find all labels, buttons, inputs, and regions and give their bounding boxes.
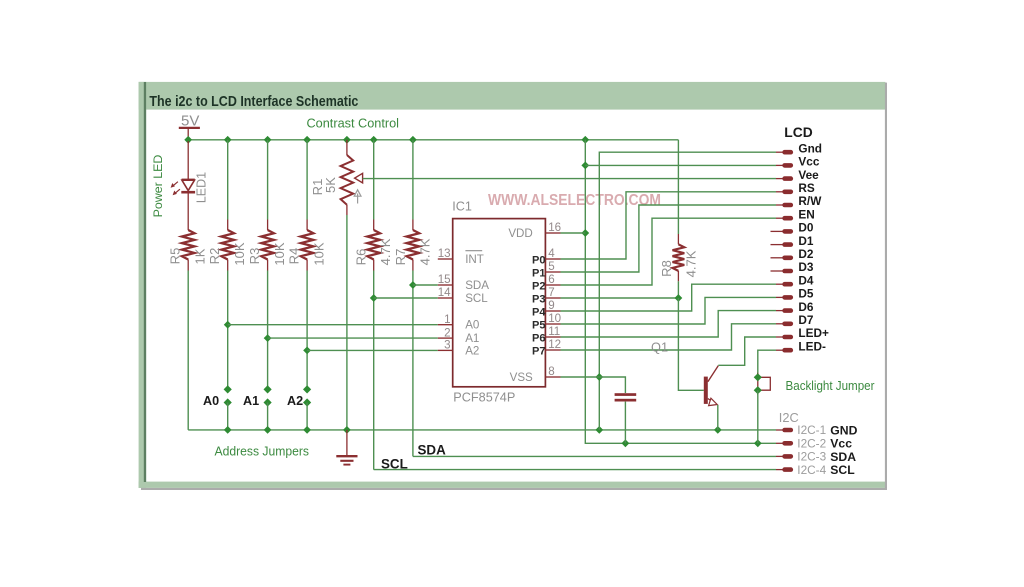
junction on 5V rail x=188.2 — [184, 136, 192, 144]
svg-text:4.7K: 4.7K — [378, 238, 393, 265]
pin 7 stub — [545, 297, 560, 299]
backlight jumper link — [761, 377, 770, 390]
svg-text:9: 9 — [548, 299, 554, 312]
wire: ground rail — [188, 429, 776, 431]
svg-text:10: 10 — [548, 312, 561, 325]
wire: A2 to IC pin 3 — [307, 349, 438, 351]
junction SCL at R6 — [370, 294, 378, 302]
svg-text:PCF8574P: PCF8574P — [453, 390, 515, 405]
junction SDA at R7 — [409, 281, 417, 289]
svg-text:GND: GND — [830, 423, 857, 437]
wire: R3 to jumper — [267, 260, 269, 271]
wire: jumper A2 to ground rail — [306, 403, 308, 430]
jumper pad pair backlight — [754, 373, 762, 381]
wire: D7 net — [561, 324, 777, 350]
svg-text:P6: P6 — [532, 333, 545, 345]
connector pin I2C-3 SDA — [776, 455, 783, 457]
wire: R1 bottom to ground rail — [346, 205, 348, 215]
svg-text:VSS: VSS — [510, 371, 533, 384]
svg-text:A0: A0 — [465, 319, 479, 332]
junction A1 net — [264, 334, 272, 342]
wire: Vcc net vertical and run to I2C-2 — [585, 140, 776, 444]
schematic panel frame — [139, 82, 887, 490]
wire: SCL bottom run to I2C-4 — [374, 469, 776, 471]
svg-text:1: 1 — [444, 313, 450, 326]
connector pin LCD D7 — [776, 323, 783, 325]
junction on 5V rail x=227.7 — [224, 136, 232, 144]
wire: A1 to IC pin 2 — [268, 337, 438, 339]
svg-text:5K: 5K — [323, 177, 338, 193]
jumper pad pair A0 — [224, 385, 232, 393]
svg-text:Q1: Q1 — [651, 340, 668, 355]
pin 11 stub — [545, 336, 560, 338]
wire: RS net — [561, 192, 777, 259]
wire: LCD Vcc line — [585, 164, 776, 166]
junction on ground rail x=267.6 — [264, 426, 272, 434]
junction on 5V rail x=412.9 — [409, 136, 417, 144]
wire: R6 column to SCL corner — [373, 271, 375, 470]
connector pin I2C-4 SCL — [776, 469, 783, 471]
svg-text:RS: RS — [798, 181, 815, 195]
connector pin LCD Vee — [776, 178, 783, 180]
connector pin I2C-1 GND — [776, 429, 783, 431]
svg-text:P3: P3 — [532, 294, 545, 306]
svg-text:D2: D2 — [798, 247, 814, 261]
wire: R2 to jumper — [227, 260, 229, 271]
pin 16 stub — [545, 232, 560, 234]
svg-text:6: 6 — [548, 273, 554, 286]
svg-text:13: 13 — [438, 247, 451, 260]
svg-text:P1: P1 — [532, 268, 545, 280]
junction Vcc / LCD Vcc — [581, 162, 589, 170]
connector pin LCD Gnd — [776, 151, 783, 153]
wire: EN net — [561, 218, 777, 285]
pin 2 stub — [438, 337, 453, 339]
transistor Q1 — [704, 366, 719, 406]
junction on ground rail x=346.9 — [343, 426, 351, 434]
svg-text:D3: D3 — [798, 260, 814, 274]
svg-text:4.7K: 4.7K — [417, 238, 432, 265]
svg-text:A2: A2 — [287, 394, 303, 408]
svg-text:10K: 10K — [232, 242, 247, 265]
resistor R4 10K — [301, 230, 314, 260]
svg-text:WWW.ALSELECTRO.COM: WWW.ALSELECTRO.COM — [488, 192, 661, 209]
svg-text:D1: D1 — [798, 234, 814, 248]
svg-text:SCL: SCL — [830, 463, 855, 477]
connector pin LCD D6 — [776, 310, 783, 312]
pin 5 stub — [545, 271, 560, 273]
svg-text:P5: P5 — [532, 320, 545, 332]
pin 3 stub — [438, 349, 453, 351]
wire: D5 net — [561, 297, 777, 324]
pin 14 stub — [438, 297, 453, 299]
pin 8 stub — [545, 376, 560, 378]
svg-text:I2C-1: I2C-1 — [797, 423, 826, 437]
junction Vcc / backlight jumper — [754, 439, 762, 447]
wire: VDD pin16 to Vcc net — [561, 232, 586, 234]
svg-text:8: 8 — [548, 365, 554, 378]
svg-text:4.7K: 4.7K — [683, 250, 698, 277]
svg-text:D6: D6 — [798, 300, 814, 314]
resistor R6 4.7K — [367, 230, 380, 260]
svg-text:Vcc: Vcc — [830, 437, 852, 451]
junction on ground rail x=307.1 — [303, 426, 311, 434]
svg-text:R2: R2 — [207, 248, 222, 265]
capacitor C1 — [615, 393, 637, 396]
svg-text:R5: R5 — [167, 248, 182, 265]
wire: capacitor to Vcc line — [624, 402, 626, 444]
wire: R/W net — [561, 205, 777, 272]
svg-text:Gnd: Gnd — [798, 141, 822, 155]
wire: R7 column to SDA corner — [412, 271, 414, 457]
resistor R5 1K — [182, 230, 195, 260]
svg-text:4: 4 — [548, 247, 555, 260]
wire: rail to R7 — [412, 140, 414, 220]
wire: rail to R3 — [267, 140, 269, 220]
svg-text:R7: R7 — [393, 249, 408, 266]
wire: Q1 emitter to ground rail — [717, 405, 719, 430]
resistor R2 10K — [221, 230, 234, 260]
svg-text:SDA: SDA — [418, 443, 447, 458]
svg-text:LED-: LED- — [798, 339, 826, 353]
wire: Q1 collector to LED+ — [718, 337, 776, 365]
svg-text:SCL: SCL — [465, 292, 488, 305]
svg-text:10K: 10K — [311, 242, 326, 265]
junction A2 net — [303, 347, 311, 355]
jumper pad pair A1 — [264, 385, 272, 393]
wire: stub D0 — [771, 230, 784, 232]
connector pin LCD D5 — [776, 296, 783, 298]
svg-text:Power LED: Power LED — [151, 155, 165, 218]
connector pin LCD R/W — [776, 204, 783, 206]
pin 9 stub — [545, 310, 560, 312]
pin 6 stub — [545, 284, 560, 286]
wire: LCD LED- to jumper — [758, 350, 776, 375]
wire: rail to R1 — [346, 140, 348, 155]
pin 1 stub — [438, 324, 453, 326]
wire: R5 to ground rail — [187, 260, 189, 271]
wire: rail to R4 — [306, 140, 308, 220]
resistor R8 4.7K — [673, 244, 685, 271]
jumper pad pair A2 — [303, 385, 311, 393]
wire: jumper A1 to ground rail — [267, 403, 269, 430]
svg-text:Vcc: Vcc — [798, 155, 819, 169]
svg-text:11: 11 — [548, 325, 560, 338]
svg-text:12: 12 — [548, 338, 561, 351]
svg-text:EN: EN — [798, 207, 814, 221]
svg-text:SDA: SDA — [465, 279, 489, 292]
svg-text:7: 7 — [548, 286, 554, 299]
connector pin LCD LED- — [776, 349, 783, 351]
connector pin LCD Vcc — [776, 164, 783, 166]
pin 4 stub — [545, 258, 560, 260]
svg-text:A1: A1 — [465, 332, 479, 345]
wire: 5V rail — [188, 139, 678, 141]
svg-text:P4: P4 — [532, 307, 546, 319]
svg-text:5V: 5V — [181, 112, 199, 129]
wire: P3 pin7 to R8 — [561, 297, 679, 299]
wire: SDA to IC pin 15 — [413, 284, 438, 286]
svg-text:LED1: LED1 — [194, 172, 208, 203]
wire: rail to R6 — [373, 140, 375, 220]
svg-text:SDA: SDA — [830, 450, 856, 464]
svg-text:A1: A1 — [243, 394, 259, 408]
svg-text:I2C-2: I2C-2 — [797, 437, 826, 451]
wire: stub D1 — [771, 244, 784, 246]
svg-text:D7: D7 — [798, 313, 814, 327]
wire: LED1 to R5 — [187, 194, 189, 231]
wire: stub D3 — [771, 270, 784, 272]
junction on ground rail x=717.8 — [714, 426, 722, 434]
svg-text:R/W: R/W — [798, 194, 822, 208]
svg-text:P0: P0 — [532, 255, 545, 267]
svg-text:D0: D0 — [798, 221, 814, 235]
junction A0 net — [224, 321, 232, 329]
op IC1 PCF8574P box — [453, 219, 546, 387]
wire: rail to R2 — [227, 140, 229, 220]
wire: stub D2 — [771, 257, 784, 259]
svg-text:Vee: Vee — [798, 168, 819, 182]
svg-text:Address Jumpers: Address Jumpers — [215, 444, 310, 459]
svg-text:VDD: VDD — [508, 227, 532, 240]
wire: D6 net — [561, 311, 777, 337]
connector pin I2C-2 Vcc — [776, 442, 783, 444]
ground — [336, 430, 357, 465]
junction on 5V rail x=267.6 — [264, 136, 272, 144]
svg-text:A2: A2 — [465, 344, 479, 357]
LED LED1 — [171, 179, 196, 195]
connector pin LCD D1 — [785, 242, 791, 247]
svg-text:3: 3 — [444, 339, 450, 352]
svg-text:The i2c to LCD Interface Schem: The i2c to LCD Interface Schematic — [149, 94, 358, 110]
svg-text:Contrast Control: Contrast Control — [307, 116, 400, 131]
svg-text:R4: R4 — [287, 248, 302, 265]
svg-text:16: 16 — [548, 221, 561, 234]
junction on 5V rail x=307.1 — [303, 136, 311, 144]
svg-text:R3: R3 — [247, 248, 262, 265]
wire: R4 to jumper — [306, 260, 308, 271]
svg-text:1K: 1K — [192, 248, 207, 264]
svg-text:I2C: I2C — [779, 410, 799, 425]
junction on ground rail x=599.3 — [595, 426, 603, 434]
svg-text:D4: D4 — [798, 273, 814, 287]
connector pin LCD D4 — [776, 283, 783, 285]
junction Vcc / VDD — [581, 229, 589, 237]
svg-text:P7: P7 — [532, 346, 545, 358]
wire: SDA bottom run to I2C-3 — [413, 455, 776, 457]
pin 12 stub — [545, 349, 560, 351]
wire: R1 wiper to LCD Vee — [363, 178, 776, 180]
wire: LED/R5 column — [187, 141, 189, 180]
wire: jumper to Vcc line — [757, 390, 759, 443]
junction on 5V rail x=373.7 — [370, 136, 378, 144]
wire: VSS pin8 to capacitor — [561, 377, 626, 393]
svg-text:Backlight Jumper: Backlight Jumper — [786, 378, 876, 393]
junction Gnd / VSS wire — [595, 373, 603, 381]
svg-text:LED+: LED+ — [798, 326, 829, 340]
svg-text:R6: R6 — [354, 249, 369, 266]
svg-text:15: 15 — [438, 273, 451, 286]
svg-text:I2C-3: I2C-3 — [797, 450, 826, 464]
svg-text:IC1: IC1 — [452, 199, 472, 213]
junction on ground rail x=227.7 — [224, 426, 232, 434]
connector pin LCD D0 — [785, 229, 791, 234]
resistor R7 4.7K — [407, 230, 420, 260]
connector pin LCD LED+ — [776, 336, 783, 338]
connector pin LCD D3 — [785, 269, 791, 274]
pin 15 stub — [438, 284, 453, 286]
wire: D4 net — [561, 284, 777, 311]
connector pin LCD D2 — [785, 255, 791, 260]
svg-text:D5: D5 — [798, 287, 814, 301]
pin 13 stub — [438, 258, 453, 260]
svg-text:LCD: LCD — [784, 125, 812, 140]
wire: Gnd net vertical (LCD Gnd to ground rail) — [599, 152, 776, 430]
wire: SCL to IC pin 14 — [374, 297, 438, 299]
junction Vcc / capacitor — [622, 439, 630, 447]
junction on 5V rail x=585.3 — [581, 136, 589, 144]
svg-text:SCL: SCL — [381, 456, 408, 471]
svg-text:10K: 10K — [272, 242, 287, 265]
connector pin LCD EN — [776, 217, 783, 219]
svg-text:2: 2 — [444, 326, 450, 339]
connector pin LCD RS — [776, 191, 783, 193]
junction on 5V rail x=346.9 — [343, 136, 351, 144]
svg-text:R8: R8 — [659, 260, 674, 277]
wire: rail corner down to R8 — [677, 140, 679, 234]
potentiometer R1 5K — [341, 155, 363, 205]
wire: jumper A0 to ground rail — [227, 403, 229, 430]
svg-text:14: 14 — [438, 286, 451, 299]
power symbol 5V — [179, 112, 200, 141]
resistor R3 10K — [261, 230, 274, 260]
svg-text:5: 5 — [548, 260, 554, 273]
wire: A0 to IC pin 1 — [228, 324, 438, 326]
svg-text:P2: P2 — [532, 281, 545, 293]
svg-text:I2C-4: I2C-4 — [797, 463, 826, 477]
junction P3 / R8 — [675, 294, 683, 302]
wire: P3 down to Q1 base — [678, 298, 703, 390]
pin 10 stub — [545, 323, 560, 325]
svg-text:A0: A0 — [203, 394, 219, 408]
svg-text:INT: INT — [465, 253, 484, 266]
